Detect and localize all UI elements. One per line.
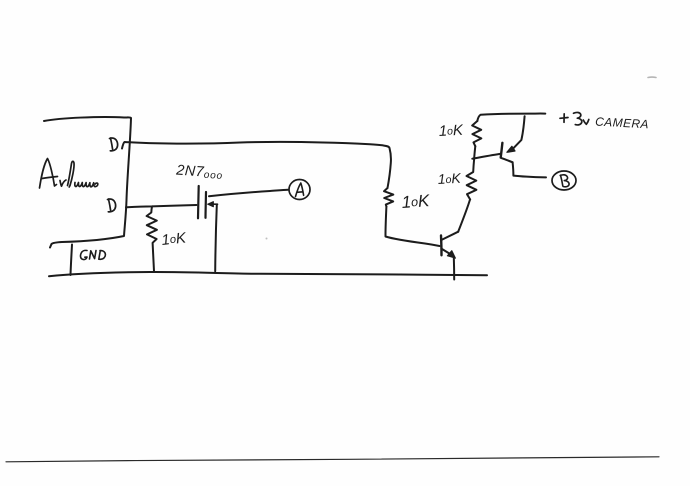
- svg-text:1oK: 1oK: [401, 191, 431, 212]
- resistor R3 1oK: [472, 121, 481, 146]
- transistor Q3 channel bar: [204, 192, 207, 218]
- pin D (bottom) label: [108, 199, 116, 212]
- pin D (top) label: [110, 138, 118, 151]
- wire: R1 bottom to Q1 base: [385, 207, 439, 247]
- transistor Q3 2N7000 MOSFET gate bar: [197, 186, 200, 218]
- paper bottom edge: [6, 457, 659, 462]
- wire: Q3 source to ground: [215, 205, 217, 271]
- wire: Q1 emitter to ground: [453, 257, 455, 280]
- node B: [552, 171, 576, 190]
- wire: base junction to Q2 base: [472, 154, 501, 159]
- wire: Q1 collector up to R4: [458, 200, 470, 232]
- wire: R3 bottom to base junction: [474, 146, 475, 158]
- wire: Q2 collector to node B: [513, 162, 546, 177]
- resistor R1 10K: [384, 188, 393, 207]
- ground GND label: [81, 250, 106, 259]
- label +3v CAMERA: [560, 112, 589, 125]
- ground rail: [49, 272, 487, 276]
- faint smudge: [648, 76, 656, 78]
- faint speck: [266, 238, 268, 240]
- svg-text:CAMERA: CAMERA: [595, 115, 649, 132]
- wire: bottom D pin to Q3 gate: [126, 205, 197, 207]
- transistor Q2 PNP: [501, 116, 525, 162]
- transistor Q1 NPN: [441, 232, 458, 259]
- resistor R4 10K: [467, 158, 477, 199]
- label Arduino: [40, 159, 98, 189]
- svg-text:2N7ooo: 2N7ooo: [175, 162, 224, 182]
- svg-text:1oK: 1oK: [438, 122, 464, 140]
- svg-text:1oK: 1oK: [161, 229, 188, 249]
- svg-text:1oK: 1oK: [437, 170, 461, 187]
- resistor R2 10K pulldown: [147, 206, 157, 271]
- wire: Q3 drain to node A: [209, 190, 288, 197]
- GND notch wire: [71, 245, 73, 276]
- node A: [289, 180, 310, 200]
- wire: top D pin to R1 (10K right): [122, 142, 391, 188]
- Q3 source arrow: [211, 203, 218, 205]
- top supply rail +3v: [477, 114, 545, 121]
- Arduino module box: [44, 117, 131, 248]
